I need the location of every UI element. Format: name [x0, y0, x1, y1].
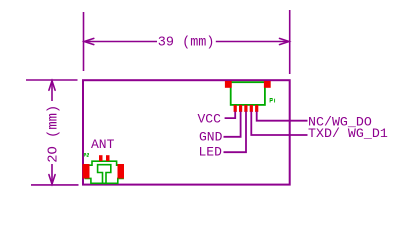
- svg-text:TXD/ WG_D1: TXD/ WG_D1: [308, 126, 388, 141]
- svg-text:LED: LED: [199, 145, 223, 160]
- svg-text:ANT: ANT: [91, 137, 115, 152]
- svg-text:39 (mm): 39 (mm): [158, 36, 215, 51]
- svg-text:2O (mm): 2O (mm): [46, 105, 62, 163]
- svg-text:VCC: VCC: [198, 111, 222, 126]
- svg-text:GND: GND: [199, 129, 223, 144]
